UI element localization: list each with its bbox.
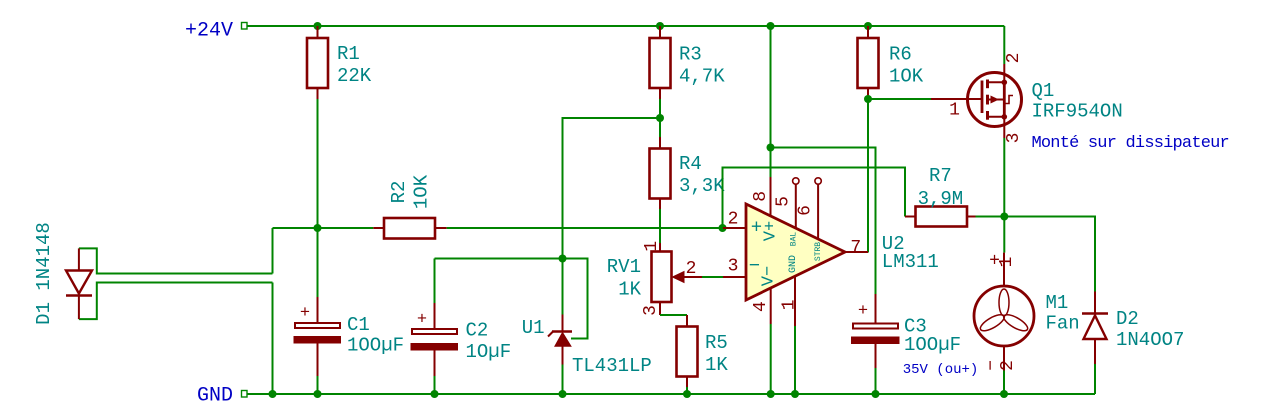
resistor R4 [650,137,671,209]
svg-text:3: 3 [728,256,739,276]
resistor R6 [858,26,879,99]
junction R3R4 [656,114,664,122]
resistor R1 [307,26,328,99]
svg-text:3,9M: 3,9M [918,188,964,210]
diode D1 [66,248,92,319]
svg-text:4,7K: 4,7K [679,66,725,88]
svg-text:35V (ou+): 35V (ou+) [903,362,979,378]
svg-text:D2: D2 [1116,308,1139,330]
junction U1 node [559,255,567,263]
junction pin2 node [719,224,727,232]
svg-text:1N4OO7: 1N4OO7 [1116,329,1184,351]
wire R3R4 junction to U1 node [563,118,661,259]
pin 4 lead [770,288,772,324]
svg-text:+: + [751,217,762,239]
resistor R2 [373,218,446,239]
svg-text:5: 5 [773,196,793,207]
wire top +24V rail [247,25,1004,27]
pin 3 lead [723,276,746,278]
wire R3 to junction [659,99,661,118]
pin 1 lead [794,277,796,326]
svg-text:C2: C2 [466,320,489,342]
svg-text:22K: 22K [337,65,372,87]
svg-text:1: 1 [997,257,1017,268]
svg-text:R7: R7 [929,165,952,187]
wire R2 node run [273,227,374,229]
junction R7 node [1000,213,1008,221]
svg-text:R2: R2 [388,181,410,204]
wire R6 to Q1 gate [868,98,931,100]
junction V+ node [767,144,775,152]
svg-text:RV1: RV1 [607,256,641,278]
wire R4 to RV1 [659,209,661,243]
op-amp U2 pins [723,177,868,326]
svg-text:3,3K: 3,3K [679,175,725,197]
svg-text:2: 2 [1004,53,1024,64]
wire M1 to rail [1003,371,1005,395]
body diode mark [1005,96,1013,104]
main vertical [1003,82,1006,117]
svg-text:+24V: +24V [185,20,233,43]
svg-text:+: + [858,302,868,321]
pin 8 lead [770,177,772,216]
arrow [991,96,1000,104]
wire D1 upper vertical to R2 node [272,228,274,274]
svg-text:1: 1 [949,101,960,121]
gate lead [931,98,982,100]
wire RV1 pin3 to R5 [660,314,687,316]
svg-text:+: + [417,311,427,330]
svg-text:U1: U1 [522,317,545,339]
pin 7 lead [845,251,868,253]
junction dots bottom rail [269,390,277,398]
wire R6 node to U2 pin7 [867,99,869,253]
+24V terminal box [242,23,248,30]
motor M1 [974,253,1034,371]
svg-text:1OK: 1OK [411,174,433,209]
potentiometer RV1 [652,243,703,315]
svg-text:V+: V+ [762,221,781,241]
wire C2 to rail [434,376,436,394]
junction R2 node [314,224,322,232]
junction dots top rail [314,22,322,30]
svg-text:Q1: Q1 [1032,80,1055,102]
wire bottom GND rail [247,393,1095,395]
resistor R7 [905,207,976,227]
stubs [988,81,1005,83]
wire D1 top loop [79,248,273,273]
wire R3R4 to R4 [659,118,661,137]
svg-text:1OK: 1OK [889,66,924,88]
svg-text:STRB: STRB [814,242,823,261]
svg-text:4: 4 [751,301,771,312]
svg-text:8: 8 [751,191,771,202]
svg-text:LM311: LM311 [882,251,939,273]
wire R7 node to D2 [1004,217,1095,292]
pin 5 lead [793,178,799,184]
wire Q1 source to R7 node [1003,138,1005,217]
svg-text:R6: R6 [889,44,912,66]
source lead [1003,117,1005,138]
svg-text:2: 2 [686,259,697,279]
svg-text:Monté sur dissipateur: Monté sur dissipateur [1032,134,1229,153]
svg-text:1OOµF: 1OOµF [347,335,404,357]
svg-text:M1: M1 [1046,292,1069,314]
wire D1 bottom loop [79,283,273,320]
wire top rail to Q1 drain [1003,26,1005,64]
wire R1 to C1 column [317,99,319,297]
svg-text:3: 3 [1004,133,1024,144]
svg-text:6: 6 [796,205,816,216]
wire R7 node to M1 [1003,217,1005,253]
capacitor C2 [434,303,436,329]
wire C3 to rail [875,368,877,394]
svg-text:GND: GND [197,385,233,408]
node D1 link column [79,228,273,394]
wire C1 to rail [317,376,319,394]
svg-text:1: 1 [642,241,662,252]
wire R2 to U2 pin2 [447,227,723,229]
pin 6 lead [815,178,821,184]
wire D1 lower vertical to GND rail [272,283,274,395]
svg-text:2: 2 [728,210,739,230]
regulator U1 TL431 [548,315,572,365]
op-amp U2 LM311 [746,204,845,300]
svg-text:−: − [749,255,760,277]
wire C2 top [434,259,436,304]
wire V+ to C3 [771,148,876,295]
wire RV1 wiper to U2 pin3 [702,276,723,278]
wire D2 to rail [1094,364,1096,394]
wire U1 node down [562,259,564,315]
capacitor C1 [294,297,341,376]
resistor R5 [677,315,698,387]
svg-text:TL431LP: TL431LP [572,355,652,377]
svg-text:1K: 1K [705,354,728,376]
gate bar [981,81,984,114]
wire pin8 column [770,26,772,177]
pin 2 lead [723,227,746,229]
svg-text:D1 1N4148: D1 1N4148 [33,222,55,325]
svg-text:1OOµF: 1OOµF [904,334,961,356]
capacitor C2 branch [411,259,458,395]
svg-text:+: + [300,304,310,323]
svg-text:R1: R1 [337,43,360,65]
channel bar [986,80,989,89]
wire pin1 to rail [794,326,796,394]
wire U1 node to C2 [435,258,563,260]
wire pin4 to rail [770,324,772,394]
wire R5 to rail [686,387,688,394]
wire R7 to Q1 column [976,216,1005,218]
svg-text:Fan: Fan [1046,313,1080,335]
svg-text:R3: R3 [679,44,702,66]
svg-text:V−: V− [760,266,779,286]
svg-text:7: 7 [850,238,861,258]
GND terminal box [242,391,248,398]
capacitor C3 [852,294,900,368]
svg-text:R5: R5 [705,332,728,354]
wire U1 ref loop [563,259,588,339]
svg-text:1K: 1K [618,279,641,301]
resistor R3 [650,26,671,99]
wire U1 to rail [562,365,564,395]
wire pin2 node vertical [723,168,906,229]
svg-text:1: 1 [779,299,799,310]
svg-text:GND: GND [788,255,799,273]
svg-text:IRF954ON: IRF954ON [1032,101,1123,123]
svg-text:R4: R4 [679,153,702,175]
svg-text:C1: C1 [347,314,370,336]
svg-text:3: 3 [641,305,661,316]
diode D2 [1082,292,1108,365]
junction R6 bottom [864,95,872,103]
svg-text:1OµF: 1OµF [466,341,512,363]
svg-text:BAL: BAL [790,232,799,247]
svg-text:2: 2 [998,360,1018,371]
transistor Q1 [931,26,1022,138]
